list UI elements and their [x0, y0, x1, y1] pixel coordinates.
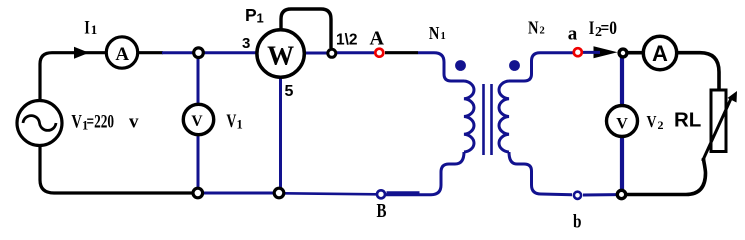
svg-text:V: V	[226, 111, 236, 132]
svg-text:1: 1	[441, 31, 446, 42]
svg-text:v: v	[129, 112, 139, 133]
svg-text:1\2: 1\2	[336, 32, 358, 49]
svg-text:=220: =220	[87, 112, 115, 133]
svg-text:V: V	[616, 116, 628, 133]
svg-text:A: A	[370, 28, 385, 50]
svg-text:B: B	[377, 201, 387, 222]
svg-text:I: I	[589, 18, 595, 39]
svg-text:2: 2	[540, 25, 545, 36]
svg-text:RL: RL	[674, 109, 701, 132]
svg-text:V: V	[71, 112, 82, 133]
svg-text:A: A	[115, 44, 129, 65]
svg-text:b: b	[573, 212, 582, 229]
svg-text:5: 5	[285, 83, 294, 100]
svg-text:=0: =0	[601, 19, 618, 39]
svg-text:N: N	[528, 17, 539, 37]
svg-text:I: I	[84, 17, 90, 38]
svg-text:V: V	[647, 112, 657, 131]
svg-text:3: 3	[242, 35, 250, 52]
svg-text:W: W	[267, 41, 294, 71]
svg-text:a: a	[568, 24, 578, 45]
svg-text:1: 1	[91, 22, 98, 37]
svg-text:V: V	[191, 113, 203, 130]
svg-text:1: 1	[237, 118, 243, 132]
svg-text:N: N	[429, 23, 440, 43]
svg-text:1: 1	[257, 11, 264, 26]
svg-text:A: A	[652, 41, 668, 66]
svg-text:P: P	[245, 5, 257, 25]
svg-text:2: 2	[658, 118, 664, 132]
